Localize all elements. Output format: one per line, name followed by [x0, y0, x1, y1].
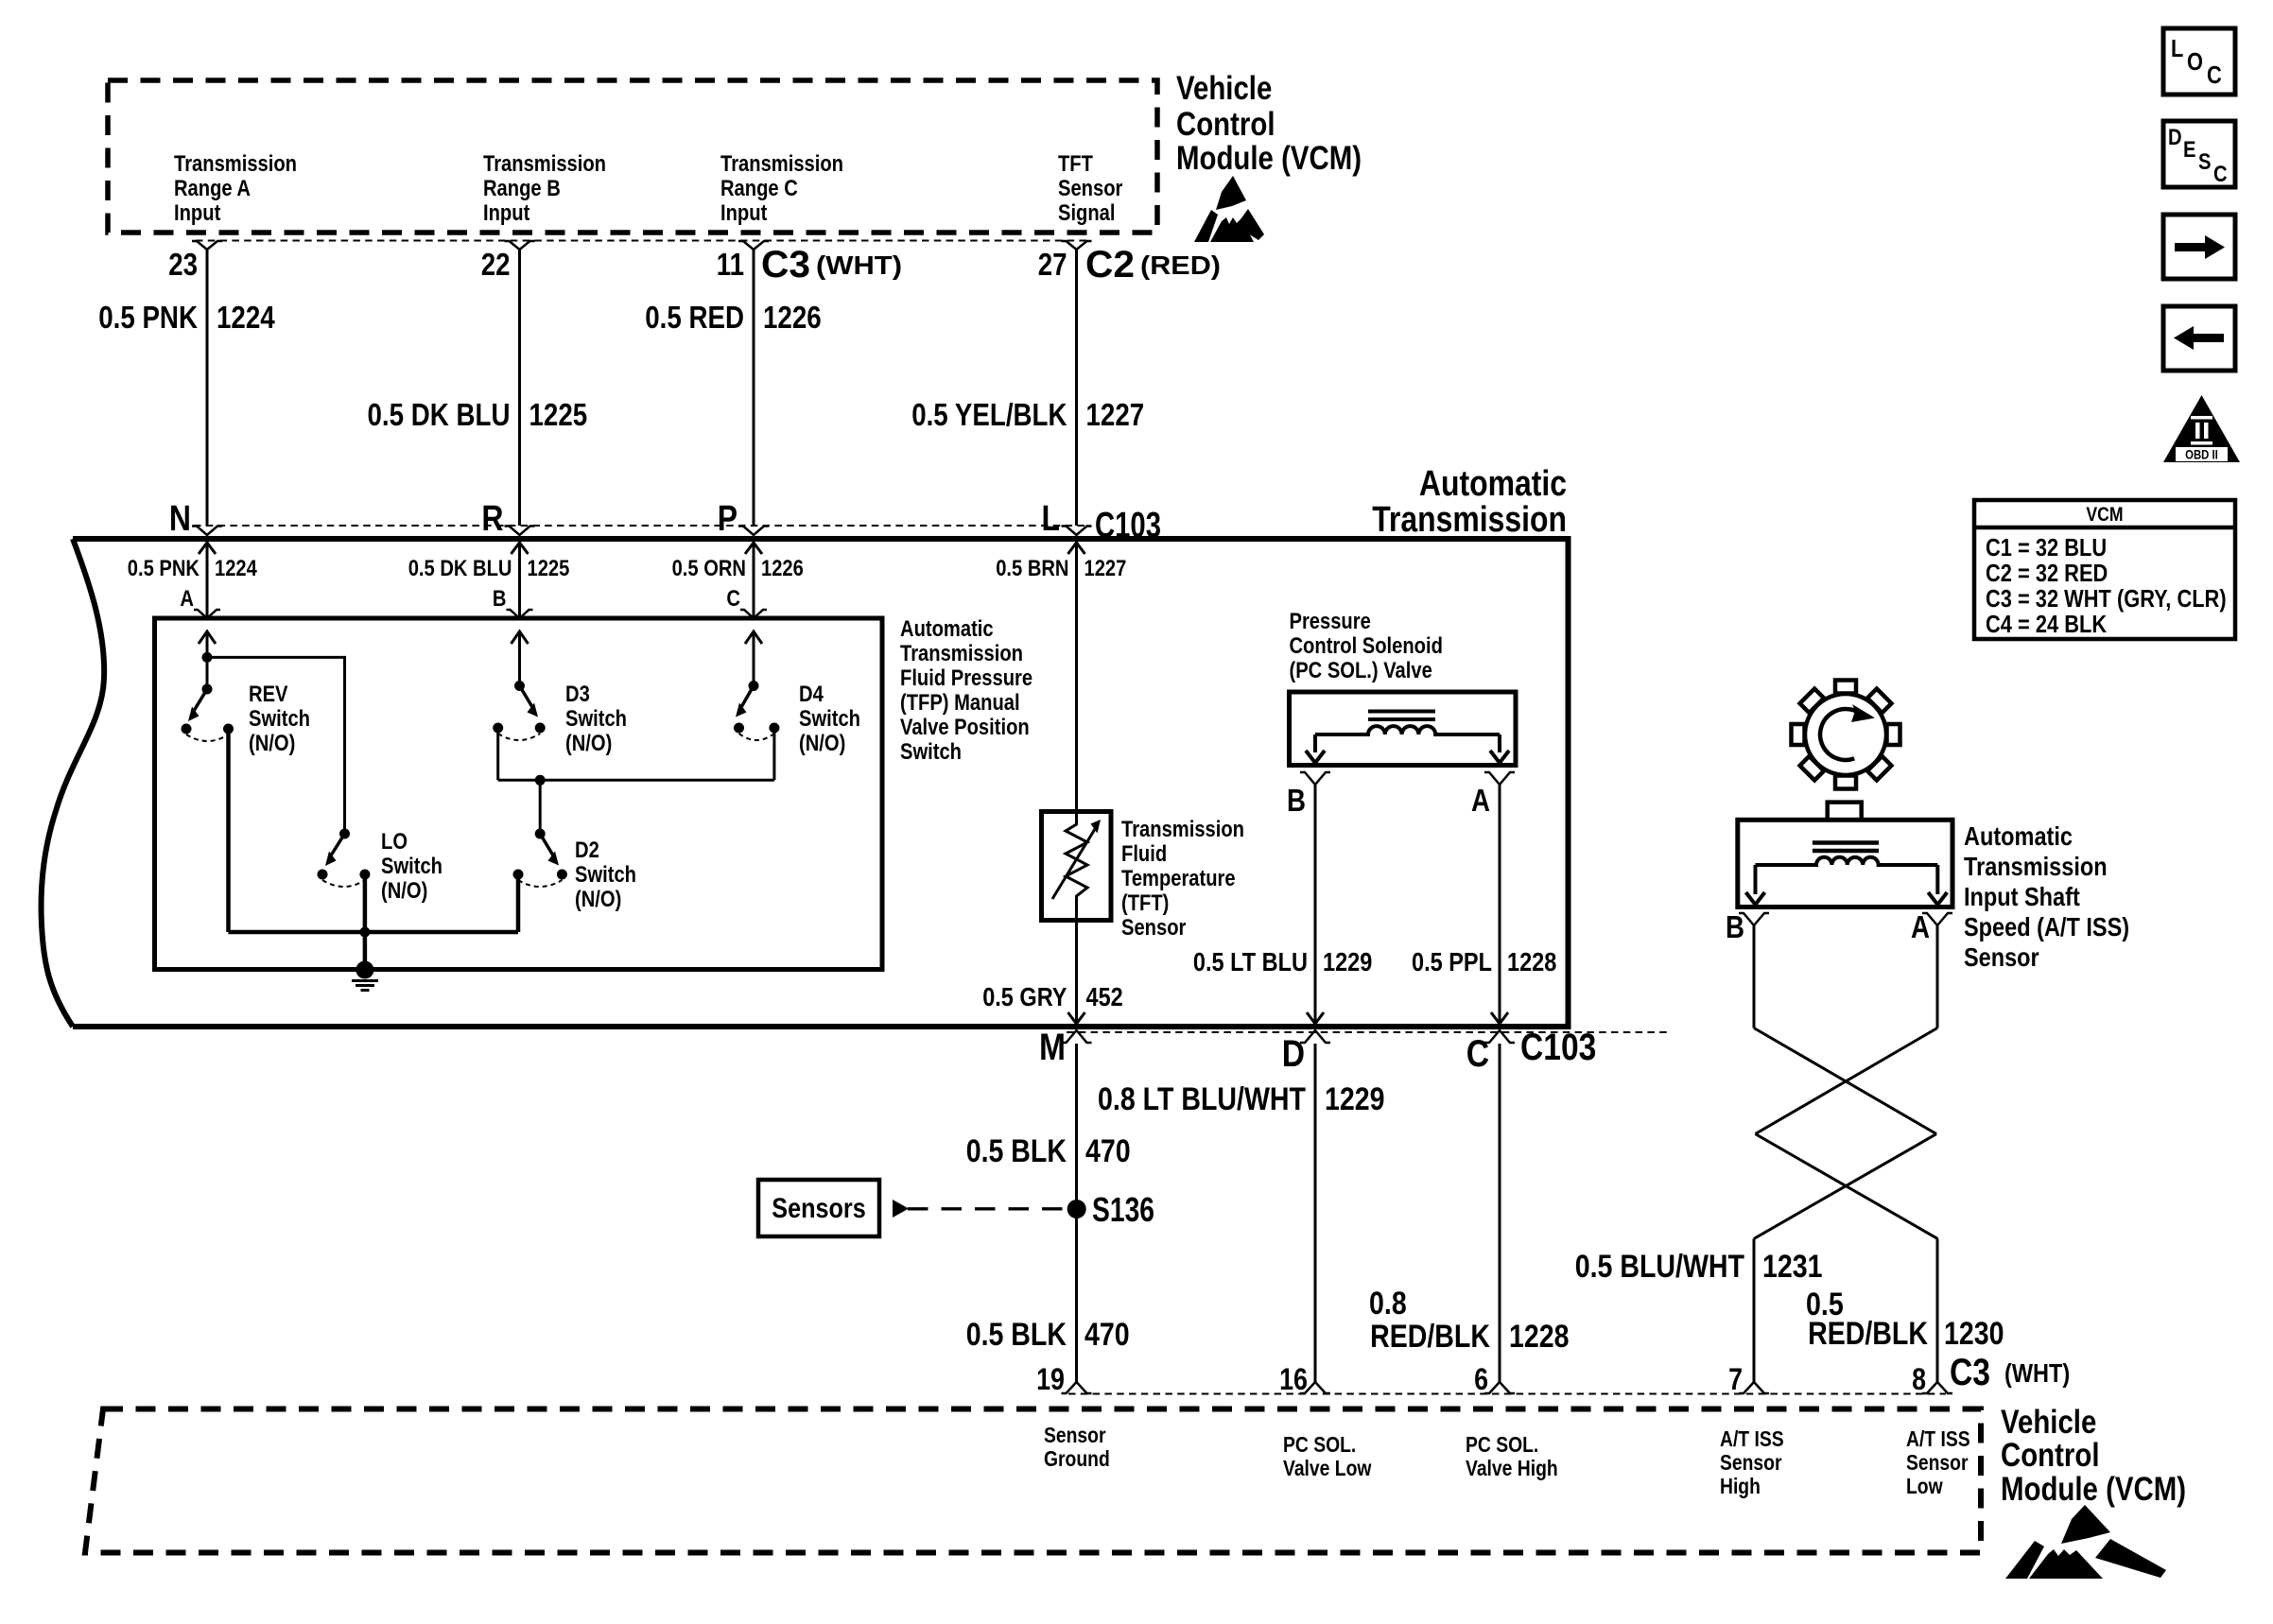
arrow into TFP box (wire B): [512, 631, 529, 644]
svg-text:0.5 GRY: 0.5 GRY: [982, 982, 1067, 1011]
icon: arrow right button: [2163, 215, 2235, 279]
svg-text:C: C: [2207, 60, 2222, 89]
ISS sensor tab: [1828, 803, 1862, 821]
svg-text:Range A: Range A: [174, 176, 251, 201]
svg-text:Switch: Switch: [381, 854, 442, 879]
svg-text:11: 11: [717, 247, 744, 282]
A/T ISS sensor box: [1738, 820, 1952, 907]
arrow into C103 bottom (wire 1228): [1491, 1012, 1508, 1024]
svg-text:Switch: Switch: [900, 739, 962, 765]
svg-text:6: 6: [1474, 1362, 1488, 1396]
Sensors box: [758, 1180, 879, 1236]
wire D4 contact down: [772, 732, 775, 780]
svg-text:1226: 1226: [763, 300, 822, 335]
svg-text:A/T ISS: A/T ISS: [1906, 1426, 1970, 1451]
svg-text:(PC SOL.) Valve: (PC SOL.) Valve: [1290, 658, 1432, 683]
svg-text:OBD II: OBD II: [2185, 448, 2218, 462]
svg-text:Input Shaft: Input Shaft: [1964, 882, 2080, 911]
svg-text:Sensor: Sensor: [1121, 915, 1186, 941]
svg-text:1225: 1225: [528, 556, 570, 581]
label: D4 Switch (N/O): [799, 682, 860, 756]
svg-text:C103: C103: [1520, 1027, 1596, 1068]
connector C103 top (thin dashed): [194, 525, 1087, 527]
pin B terminal fork (ISS): [1739, 913, 1769, 925]
ESD symbol top: [1194, 176, 1264, 242]
svg-text:Control Solenoid: Control Solenoid: [1290, 633, 1443, 659]
svg-text:Automatic: Automatic: [900, 616, 994, 642]
wire TFT signal (C103 through box): [1075, 539, 1078, 821]
svg-text:Transmission: Transmission: [900, 641, 1023, 666]
pin 27 terminal fork: [1062, 241, 1092, 250]
label: TFT Sensor Signal: [1058, 151, 1122, 226]
icon: LOC button: [2163, 28, 2235, 95]
svg-text:1230: 1230: [1944, 1316, 2004, 1352]
bottom connector (thin dashed): [1068, 1393, 1946, 1395]
svg-text:Sensor: Sensor: [1058, 176, 1122, 201]
svg-text:0.5 RED: 0.5 RED: [645, 300, 744, 335]
svg-text:S: S: [2198, 149, 2212, 175]
svg-text:Transmission: Transmission: [1121, 817, 1244, 842]
svg-text:Module (VCM): Module (VCM): [2001, 1471, 2186, 1508]
svg-text:LO: LO: [381, 829, 408, 855]
svg-text:(N/O): (N/O): [799, 731, 845, 756]
svg-text:B: B: [493, 586, 507, 612]
svg-text:0.5 DK BLU: 0.5 DK BLU: [408, 556, 512, 581]
label: Transmission Range B Input: [483, 151, 606, 226]
TFT variable arrow: [1052, 829, 1095, 899]
svg-text:Valve High: Valve High: [1466, 1456, 1558, 1480]
wire D2 contact to ground bus: [516, 878, 521, 932]
wire PC SOL low (D to pin 16): [1314, 1044, 1317, 1382]
svg-text:23: 23: [168, 247, 198, 282]
label: Transmission Fluid Temperature (TFT) Sensor: [1121, 817, 1244, 941]
connector C103 bottom (thin dashed): [1067, 1031, 1672, 1033]
wire 1224 (VCM to C103): [206, 250, 209, 526]
svg-text:Switch: Switch: [575, 862, 636, 888]
wire 1227 (VCM to C103): [1075, 250, 1078, 526]
svg-text:N: N: [169, 499, 191, 539]
svg-text:S136: S136: [1092, 1190, 1154, 1229]
svg-text:C2: C2: [1085, 244, 1135, 285]
ISS core bars: [1813, 840, 1879, 845]
torn edge (left side of transmission box): [42, 539, 105, 1027]
svg-text:D2: D2: [575, 838, 599, 863]
svg-text:1229: 1229: [1325, 1081, 1385, 1117]
wire segment B (C103 to TFP switch): [518, 539, 521, 618]
label: A/T ISS Sensor Low: [1906, 1426, 1970, 1498]
wire to pin 7 vertical: [1753, 1238, 1756, 1382]
TFT thermistor zigzag: [1066, 819, 1087, 909]
svg-text:Switch: Switch: [249, 706, 310, 732]
svg-text:(TFP) Manual: (TFP) Manual: [900, 690, 1020, 716]
Automatic Transmission box outline: [73, 539, 1569, 1027]
label: A/T ISS Sensor High: [1720, 1426, 1784, 1498]
svg-text:Module (VCM): Module (VCM): [1176, 140, 1362, 177]
label: Automatic Transmission: [1372, 464, 1567, 540]
arrow into C103 bottom (TFT wire): [1068, 1012, 1085, 1024]
svg-text:0.5 BLK: 0.5 BLK: [966, 1133, 1067, 1169]
svg-text:Transmission: Transmission: [720, 151, 843, 177]
arrow into TFP box (wire A): [199, 631, 216, 644]
VCM module box (bottom, dashed): [85, 1409, 1981, 1553]
label: Automatic Transmission Input Shaft Speed (A/T ISS) Sensor: [1964, 821, 2129, 972]
wire ISS B (1231) vertical top: [1753, 925, 1756, 1028]
svg-text:(RED): (RED): [1140, 251, 1221, 280]
pin B terminal fork (PC SOL): [1300, 772, 1330, 785]
svg-text:E: E: [2183, 137, 2196, 163]
svg-text:0.5 PPL: 0.5 PPL: [1412, 947, 1492, 976]
svg-text:Range B: Range B: [483, 176, 561, 201]
PC SOL core bars: [1368, 710, 1435, 714]
label: LO Switch (N/O): [381, 829, 442, 904]
node D: [1300, 1030, 1330, 1043]
svg-text:0.5 YEL/BLK: 0.5 YEL/BLK: [911, 397, 1067, 432]
svg-text:0.5 DK BLU: 0.5 DK BLU: [368, 397, 511, 432]
svg-text:(WHT): (WHT): [816, 251, 902, 280]
svg-text:0.5 PNK: 0.5 PNK: [128, 556, 200, 581]
PC SOL coil: [1315, 726, 1500, 734]
svg-text:Control: Control: [2001, 1437, 2100, 1474]
svg-text:Ground: Ground: [1044, 1446, 1110, 1471]
svg-text:Sensor: Sensor: [1044, 1423, 1106, 1447]
svg-text:8: 8: [1912, 1362, 1926, 1396]
gear icon: [1792, 681, 1900, 789]
svg-text:A: A: [180, 586, 194, 612]
svg-text:REV: REV: [249, 682, 288, 707]
svg-text:C1 = 32 BLU: C1 = 32 BLU: [1986, 533, 2107, 561]
svg-text:L: L: [2171, 34, 2183, 62]
pin 22 terminal fork: [505, 241, 535, 250]
svg-text:PC SOL.: PC SOL.: [1283, 1432, 1356, 1457]
node M: [1062, 1030, 1092, 1043]
label: D3 Switch (N/O): [565, 682, 627, 756]
svg-text:D4: D4: [799, 682, 824, 707]
node S136: [1067, 1200, 1086, 1218]
svg-text:D: D: [2168, 125, 2182, 150]
svg-text:19: 19: [1036, 1362, 1065, 1396]
svg-text:0.5 ORN: 0.5 ORN: [672, 556, 746, 581]
svg-text:VCM: VCM: [2086, 504, 2123, 526]
svg-text:0.8: 0.8: [1369, 1286, 1407, 1322]
pin A terminal fork (ISS): [1922, 913, 1952, 925]
ISS coil drops with arrows: [1754, 865, 1758, 894]
svg-text:0.5 PNK: 0.5 PNK: [98, 300, 198, 335]
svg-text:B: B: [1287, 783, 1306, 818]
D3 switch (N/O): [493, 681, 546, 740]
icon: DESC button: [2163, 121, 2235, 187]
arrow into C103 bottom (wire 1229): [1307, 1012, 1324, 1024]
wire TFT to C103 bottom: [1075, 909, 1078, 1024]
wire 1226 (VCM to C103): [753, 250, 755, 526]
D2 switch (N/O): [513, 829, 567, 888]
svg-text:Transmission: Transmission: [1964, 852, 2108, 881]
dashed wire Sensors to S136: [908, 1207, 1067, 1210]
TFT sensor box: [1042, 812, 1112, 921]
svg-text:Signal: Signal: [1058, 200, 1116, 226]
svg-text:1228: 1228: [1509, 1319, 1570, 1355]
svg-text:22: 22: [481, 247, 511, 282]
label: TFP switch: [900, 616, 1032, 765]
svg-text:(N/O): (N/O): [381, 878, 427, 904]
svg-text:(N/O): (N/O): [575, 887, 621, 912]
wire PC SOL A to C103 (1228): [1499, 785, 1501, 1024]
svg-text:D: D: [1282, 1033, 1305, 1075]
wire link D3/D4 to D2: [498, 779, 774, 782]
D4 switch (N/O): [734, 681, 779, 740]
arrow into TFP box (wire C): [745, 631, 762, 644]
svg-text:0.5 BLK: 0.5 BLK: [966, 1317, 1067, 1353]
svg-text:C3 = 32 WHT (GRY, CLR): C3 = 32 WHT (GRY, CLR): [1986, 584, 2227, 613]
svg-text:Sensor: Sensor: [1720, 1450, 1782, 1475]
svg-text:R: R: [481, 499, 503, 539]
connector line (VCM top, thin dashed): [196, 240, 1087, 242]
svg-text:D3: D3: [565, 682, 590, 707]
label: Pressure Control Solenoid (PC SOL.) Valve: [1290, 609, 1443, 683]
PC SOL valve box: [1290, 692, 1517, 766]
VCM connector legend table: [1974, 500, 2235, 639]
node: junction to D2: [535, 775, 546, 786]
svg-text:1231: 1231: [1762, 1249, 1823, 1285]
wire ground bus: [229, 930, 519, 935]
svg-text:C: C: [1466, 1033, 1489, 1075]
label: PC SOL. Valve High: [1466, 1432, 1558, 1480]
svg-text:Fluid: Fluid: [1121, 841, 1167, 867]
svg-text:0.5 LT BLU: 0.5 LT BLU: [1193, 947, 1308, 976]
wire PC SOL B to C103 (1229): [1314, 785, 1317, 1024]
ESD symbol bottom: [2005, 1505, 2166, 1579]
svg-text:Transmission: Transmission: [483, 151, 606, 177]
icon: arrow left button: [2163, 306, 2235, 371]
PC SOL coil drops with arrows: [1313, 734, 1317, 752]
svg-text:452: 452: [1086, 982, 1123, 1011]
svg-text:Control: Control: [1176, 106, 1275, 143]
svg-text:A/T ISS: A/T ISS: [1720, 1426, 1784, 1451]
label: Vehicle Control Module (VCM) bottom: [2001, 1404, 2186, 1508]
svg-text:Vehicle: Vehicle: [1176, 70, 1272, 107]
svg-text:470: 470: [1085, 1133, 1131, 1169]
svg-text:Transmission: Transmission: [1372, 500, 1567, 540]
wire sensor ground (M to pin 19): [1075, 1044, 1078, 1382]
svg-text:C3: C3: [761, 244, 810, 285]
wire ISS A (1230) vertical top: [1936, 925, 1939, 1028]
arrow into C103 (wire 1226): [745, 543, 762, 554]
svg-text:O: O: [2187, 47, 2203, 76]
svg-text:Sensor: Sensor: [1906, 1450, 1969, 1475]
svg-text:(N/O): (N/O): [565, 731, 612, 756]
svg-text:(TFT): (TFT): [1121, 890, 1169, 916]
svg-text:Automatic: Automatic: [1964, 821, 2073, 851]
label: REV Switch (N/O): [249, 682, 310, 756]
arrow into C103 (wire 1225): [512, 543, 529, 554]
arrow into C103 (wire 1227): [1068, 543, 1085, 554]
pin A terminal fork (PC SOL): [1484, 772, 1515, 785]
svg-text:Automatic: Automatic: [1419, 464, 1567, 504]
wire segment A (C103 to TFP switch): [206, 539, 209, 618]
svg-text:470: 470: [1084, 1317, 1130, 1353]
svg-text:High: High: [1720, 1474, 1761, 1498]
svg-text:RED/BLK: RED/BLK: [1370, 1319, 1490, 1355]
wire LO contact to ground: [363, 878, 368, 970]
label: Transmission Range A Input: [174, 151, 297, 226]
svg-text:1228: 1228: [1507, 947, 1556, 976]
pin 11 terminal fork: [738, 241, 769, 250]
svg-text:1226: 1226: [761, 556, 804, 581]
wire segment C (C103 to TFP switch): [753, 539, 755, 618]
svg-text:Sensor: Sensor: [1964, 942, 2039, 972]
svg-text:Low: Low: [1906, 1474, 1943, 1498]
svg-text:1227: 1227: [1086, 397, 1145, 432]
svg-text:RED/BLK: RED/BLK: [1808, 1316, 1928, 1352]
svg-text:TFT: TFT: [1058, 151, 1093, 177]
svg-text:Input: Input: [720, 200, 767, 226]
svg-text:(WHT): (WHT): [2004, 1358, 2070, 1388]
svg-text:Switch: Switch: [565, 706, 627, 732]
node: junction A to LO branch: [202, 652, 213, 663]
svg-text:P: P: [718, 499, 737, 539]
svg-text:1229: 1229: [1323, 947, 1372, 976]
svg-text:Range C: Range C: [720, 176, 798, 201]
svg-text:C2 = 32 RED: C2 = 32 RED: [1986, 559, 2108, 587]
svg-text:Input: Input: [174, 200, 220, 226]
svg-text:Valve Low: Valve Low: [1283, 1456, 1371, 1480]
svg-text:L: L: [1042, 499, 1061, 539]
svg-text:1224: 1224: [215, 556, 257, 581]
node C: [1484, 1030, 1515, 1043]
svg-text:Pressure: Pressure: [1290, 609, 1371, 634]
svg-text:Valve Position: Valve Position: [900, 715, 1030, 740]
icon: OBD II symbol: [2163, 395, 2240, 462]
svg-text:C3: C3: [1950, 1352, 1990, 1393]
svg-text:Switch: Switch: [799, 706, 860, 732]
label: D2 Switch (N/O): [575, 838, 636, 912]
wire to pin 8 vertical: [1936, 1238, 1939, 1382]
svg-text:C: C: [2213, 162, 2228, 187]
wire crossover X (upper): [1754, 1028, 1936, 1134]
svg-text:16: 16: [1279, 1362, 1308, 1396]
arrow into C103 (wire 1224): [199, 543, 216, 554]
svg-text:7: 7: [1728, 1362, 1743, 1396]
label: Sensor Ground: [1044, 1423, 1110, 1471]
svg-text:(N/O): (N/O): [249, 731, 295, 756]
wire REV contact to ground bus: [226, 733, 231, 932]
wire branch to LO switch: [207, 657, 345, 834]
svg-text:Transmission: Transmission: [174, 151, 297, 177]
ground: [352, 961, 378, 991]
svg-text:Temperature: Temperature: [1121, 866, 1236, 891]
node: bus junction at LO line: [359, 927, 370, 938]
wire crossover X (lower): [1756, 1134, 1938, 1239]
svg-text:C4 = 24 BLK: C4 = 24 BLK: [1986, 610, 2107, 638]
svg-text:0.8 LT BLU/WHT: 0.8 LT BLU/WHT: [1098, 1081, 1306, 1117]
svg-text:27: 27: [1038, 247, 1067, 282]
label: Transmission Range C Input: [720, 151, 843, 226]
svg-text:B: B: [1726, 909, 1744, 944]
TFP manual valve position switch box: [155, 618, 883, 970]
svg-text:Fluid Pressure: Fluid Pressure: [900, 665, 1032, 691]
svg-text:C: C: [726, 586, 740, 612]
svg-text:PC SOL.: PC SOL.: [1466, 1432, 1538, 1457]
wire D3 contact down: [496, 732, 499, 780]
label: Vehicle Control Module (VCM) top: [1176, 70, 1362, 177]
svg-text:Sensors: Sensors: [772, 1193, 865, 1224]
svg-text:M: M: [1039, 1027, 1066, 1068]
svg-text:1225: 1225: [529, 397, 588, 432]
wire 1225 (VCM to C103): [518, 250, 521, 526]
svg-text:1227: 1227: [1084, 556, 1127, 581]
svg-text:1224: 1224: [217, 300, 275, 335]
pin 23 terminal fork: [192, 241, 222, 250]
svg-text:Input: Input: [483, 200, 529, 226]
ISS coil: [1756, 857, 1938, 865]
svg-text:A: A: [1911, 909, 1930, 944]
svg-text:Speed (A/T ISS): Speed (A/T ISS): [1964, 912, 2129, 942]
svg-text:Vehicle: Vehicle: [2001, 1404, 2096, 1441]
arrow from Sensors box: [893, 1200, 909, 1218]
wire PC SOL high (C to pin 6): [1499, 1044, 1501, 1382]
LO switch (N/O): [318, 829, 371, 888]
svg-text:0.5 BRN: 0.5 BRN: [996, 556, 1068, 581]
REV switch (N/O): [182, 684, 234, 742]
VCM module box (top, dashed): [108, 80, 1157, 233]
label: PC SOL. Valve Low: [1283, 1432, 1371, 1480]
svg-text:0.5 BLU/WHT: 0.5 BLU/WHT: [1575, 1249, 1744, 1285]
svg-text:A: A: [1471, 783, 1490, 818]
